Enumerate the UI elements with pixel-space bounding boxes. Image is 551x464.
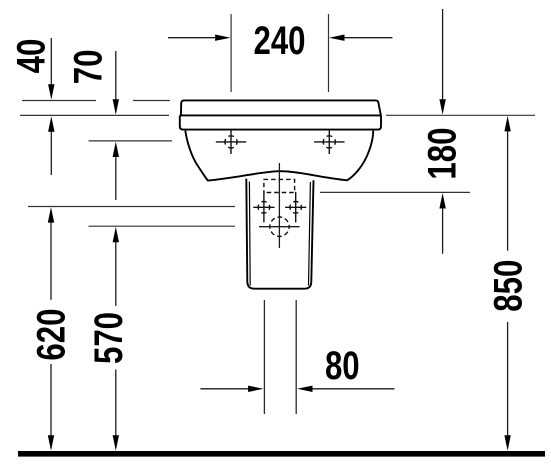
svg-text:180: 180 [420,128,465,180]
washbasin rim top band [181,100,381,115]
washbasin body [185,131,373,181]
fixing hole right (basin) [314,130,344,154]
extension line C (basin fixing holes level, left) [89,140,173,142]
80 dimension arrow left [200,388,249,390]
drain hole (big dashed circle) [270,217,289,236]
svg-text:570: 570 [86,312,131,364]
drain pipe line left [263,300,265,414]
pedestal fixing hole left [253,192,274,223]
svg-text:850: 850 [486,260,531,312]
570 dimension leader with arrows [115,240,117,306]
svg-text:620: 620 [29,309,74,361]
washbasin rim lower band [180,115,381,129]
drain hole horizontal axis [259,226,300,228]
svg-text:70: 70 [66,50,111,85]
washbasin rim mid line [180,114,381,116]
pedestal inner line right [309,182,311,286]
extension line E (620 top reference) [28,206,235,208]
center vertical axis of pedestal [278,163,280,248]
620 dimension leader with arrows [50,220,52,300]
floor line [18,451,545,457]
240 extension line left [230,14,232,92]
pedestal outline [246,179,313,289]
180 dimension leader and down arrow [442,9,444,101]
70 dimension up arrow [115,155,117,200]
extension line A (sink top level, left) [22,100,170,102]
extension line B (rim mid level, left segment) [20,114,169,116]
drain pipe line right [295,300,297,414]
240 dimension arrow left [168,37,216,39]
80 dimension arrow right [312,388,395,390]
180 dimension up arrow [442,206,444,254]
240 extension line right [328,14,330,92]
svg-text:40: 40 [9,39,54,74]
pedestal fixing hole right [285,192,306,223]
extension line F (570 top reference) [89,225,236,227]
850 dimension leader with arrows [507,129,509,251]
extension line D (180 bottom reference, right) [320,191,470,193]
40 dimension up arrow [50,130,52,175]
240 dimension arrow right [344,37,392,39]
svg-text:80: 80 [325,343,360,388]
hidden fixation channel (dashed rectangle) [264,179,295,192]
70 dimension leader and down arrow [115,51,117,101]
fixing hole left (basin) [216,130,246,154]
extension line B (rim mid level, right segment) [386,114,535,116]
svg-text:240: 240 [253,18,305,63]
pedestal inner line left [248,182,251,286]
40 dimension leader and down arrow [50,38,52,86]
